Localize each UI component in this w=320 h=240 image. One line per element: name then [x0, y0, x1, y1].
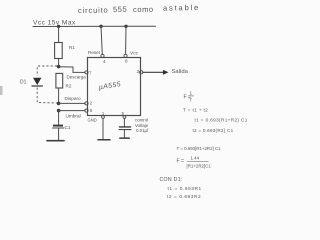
wire: R2 bottom to trigger junction — [58, 88, 60, 103]
node: rail junction to Vcc pin — [124, 25, 127, 28]
svg-text:astable: astable — [163, 3, 200, 13]
node: R1/R2/discharge junction — [57, 65, 61, 69]
svg-text:t2 = 0.693R2: t2 = 0.693R2 — [167, 194, 201, 200]
svg-text:F =: F = — [177, 159, 184, 165]
svg-text:1: 1 — [190, 91, 193, 96]
svg-text:R2: R2 — [66, 84, 72, 89]
svg-text:Reset: Reset — [88, 50, 101, 55]
wire: dashed top link — [37, 66, 57, 76]
svg-text:2: 2 — [90, 101, 93, 106]
ground (pin1) — [98, 139, 110, 141]
svg-text:C1: C1 — [65, 125, 71, 130]
pin 7 circle — [85, 71, 88, 74]
svg-text:Descarga: Descarga — [67, 75, 87, 80]
pin 4 circle — [101, 54, 104, 57]
wire: junction down to C1 — [58, 111, 60, 125]
svg-text:Vcc 15v Max: Vcc 15v Max — [33, 20, 76, 27]
svg-text:t2 = 0.693(R2) C1: t2 = 0.693(R2) C1 — [193, 128, 234, 133]
svg-text:GND: GND — [88, 118, 97, 123]
svg-text:t1 = 0.693(R1+R2) C1: t1 = 0.693(R1+R2) C1 — [195, 118, 248, 123]
svg-text:3: 3 — [137, 69, 140, 74]
wire: cap to ground — [123, 130, 125, 138]
wire: output to arrow — [143, 71, 164, 73]
svg-text:circuito: circuito — [78, 6, 109, 16]
wire: to pin 6 — [59, 110, 85, 112]
svg-text:como: como — [133, 5, 154, 14]
resistor R2 — [56, 73, 63, 88]
node: threshold junction — [57, 109, 61, 113]
title: circuito 555 como astable — [78, 3, 200, 15]
op-amp/IC 555 chip body U1 — [88, 58, 141, 116]
svg-text:0.01µf: 0.01µf — [136, 128, 149, 133]
capacitor control 0.01uF — [120, 126, 131, 128]
node: trigger junction — [57, 102, 61, 106]
wire: rail to Reset pin4 — [101, 26, 102, 54]
wire: pin1 to ground — [102, 118, 104, 139]
F = 1/T — [184, 91, 195, 103]
node: rail junction to Reset — [99, 25, 102, 28]
svg-text:Vcc: Vcc — [130, 50, 139, 56]
svg-text:[R1+2R2]C1: [R1+2R2]C1 — [187, 164, 212, 169]
resistor R1 — [55, 43, 63, 59]
wire: C1 to ground — [58, 128, 60, 140]
wire: R1 bottom to junction — [58, 59, 60, 67]
svg-text:Disparo: Disparo — [65, 96, 82, 101]
diode D1 triangle — [33, 78, 41, 85]
paper smudge left edge — [0, 86, 3, 95]
svg-text:T = t1 + t2: T = t1 + t2 — [183, 108, 208, 114]
svg-text:R1: R1 — [69, 45, 75, 50]
wire: dashed bottom link — [37, 88, 57, 104]
svg-text:Salida: Salida — [172, 69, 189, 75]
svg-text:6: 6 — [90, 108, 93, 113]
capacitor C1 — [53, 125, 63, 127]
svg-text:Umbral: Umbral — [66, 114, 81, 119]
svg-text:CON D1:: CON D1: — [160, 177, 183, 183]
wire: to pin 2 — [59, 102, 85, 104]
svg-text:555: 555 — [113, 5, 127, 14]
svg-text:5: 5 — [122, 111, 125, 116]
wire: rail to R1 top — [58, 26, 60, 42]
pin 2 circle — [85, 102, 88, 105]
pin 6 circle — [85, 109, 88, 112]
svg-text:8: 8 — [125, 59, 128, 64]
wire: Vcc power rail — [33, 25, 156, 27]
svg-text:T = 0.693[R1+2R2] C1: T = 0.693[R1+2R2] C1 — [177, 146, 222, 151]
svg-text:7: 7 — [89, 71, 92, 76]
svg-text:control: control — [135, 118, 148, 123]
wire: junction to pin 7 (stepped) — [59, 67, 85, 73]
node: rail junction to R1 — [57, 25, 60, 28]
pin 8 circle — [124, 54, 127, 57]
wire: pin5 to cap — [123, 118, 125, 126]
svg-text:D1: D1 — [20, 80, 27, 86]
svg-text:1: 1 — [102, 111, 105, 116]
svg-text:t1 = 0.693R1: t1 = 0.693R1 — [168, 186, 202, 192]
ground (pin5) — [120, 137, 129, 139]
svg-text:T: T — [189, 98, 192, 103]
wire: rail to Vcc pin8 — [125, 26, 127, 54]
svg-text:1.44: 1.44 — [191, 156, 200, 161]
ground (C1) — [47, 140, 64, 142]
svg-text:4: 4 — [103, 59, 106, 64]
F = 1.44 / [R1+2R2]C1 — [177, 156, 212, 169]
